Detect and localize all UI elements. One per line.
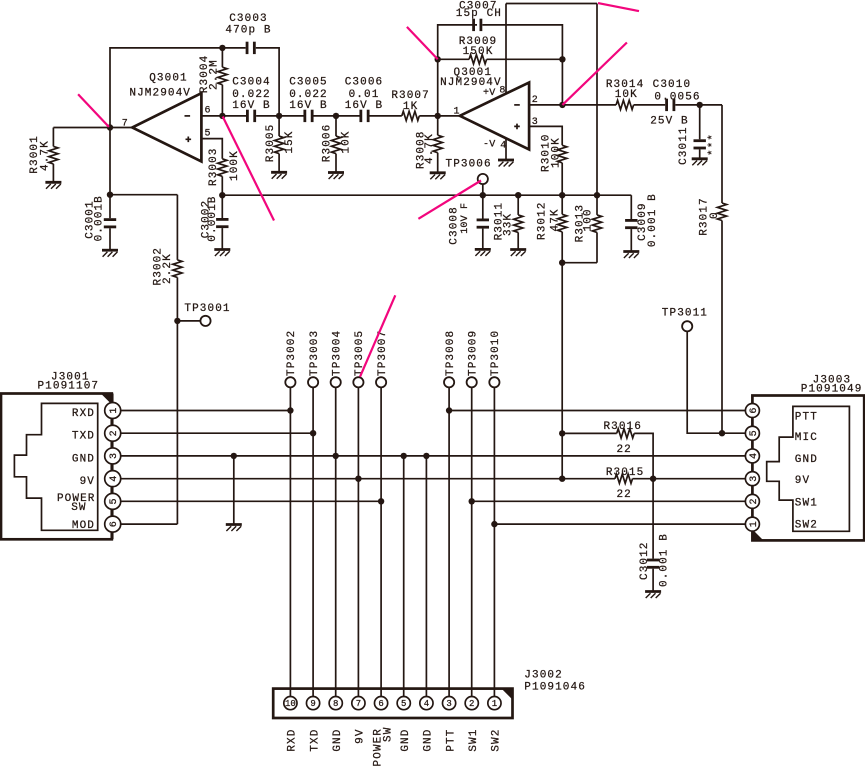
- resistor R3008: [433, 135, 442, 153]
- svg-text:R3003: R3003: [208, 147, 220, 186]
- wire op-amp1 pin5 to R3003: [201, 139, 222, 159]
- ground C3009: [623, 252, 639, 259]
- svg-text:7: 7: [122, 118, 128, 129]
- connector J3002 pin 1 circle: [488, 697, 501, 710]
- resistor R3009: [469, 55, 487, 64]
- wire rail-B bias rail: [222, 194, 631, 196]
- capacitor C3008: [477, 219, 489, 229]
- resistor R3006: [331, 136, 340, 154]
- svg-text:GND: GND: [423, 729, 435, 752]
- node SW2 TP3010 junction: [491, 521, 497, 527]
- svg-text:0.001B: 0.001B: [93, 195, 105, 241]
- connector J3003 jack outline: [767, 406, 850, 531]
- ground R3005: [271, 172, 287, 179]
- resistor R3011: [514, 215, 523, 233]
- resistor R3004: [218, 67, 227, 85]
- svg-text:+V: +V: [483, 88, 495, 99]
- node R3011 rail junction: [515, 192, 521, 198]
- op-amp2 plus input symbol: [514, 124, 520, 130]
- svg-text:6: 6: [205, 106, 211, 117]
- node PTT TP3008 junction: [446, 407, 452, 413]
- svg-text:TP3011: TP3011: [662, 308, 708, 320]
- connector J3002 pin 7 circle: [352, 697, 365, 710]
- wire C3011 top lead: [699, 105, 701, 139]
- test point TP3003: [308, 377, 318, 387]
- test point TP3005: [353, 377, 363, 387]
- connector J3002 pin 8 circle: [329, 697, 342, 710]
- wire op-amp2 -V pin4 lead: [505, 138, 507, 160]
- ground op-amp2 -V: [498, 160, 514, 167]
- connector J3003 pin 3 circle: [745, 472, 759, 486]
- svg-text:5: 5: [401, 699, 406, 709]
- svg-text:9: 9: [310, 699, 315, 709]
- wire R3009 left lead: [438, 58, 469, 60]
- wire C3003 right lead down: [256, 48, 279, 116]
- test point TP3006: [478, 174, 488, 184]
- wire rail-A to R3002: [110, 194, 177, 196]
- wire POWER SW net: [121, 500, 381, 502]
- capacitor C3006: [359, 110, 369, 122]
- svg-text:C3010: C3010: [653, 79, 692, 91]
- wire C3001 bottom lead: [109, 228, 111, 250]
- svg-text:TP3007: TP3007: [377, 330, 389, 376]
- wire R3005 bottom lead: [278, 154, 280, 173]
- svg-text:R3016: R3016: [603, 421, 642, 433]
- wire TP3007 column to J3002 pin6: [380, 387, 382, 696]
- connector J3001 pin 1 circle: [105, 403, 121, 419]
- wire C3011 bottom lead: [699, 149, 701, 158]
- wire TP3006 stem: [482, 184, 484, 195]
- op-amp Q3001 unit A triangle: [132, 93, 201, 161]
- connector J3002 box: [273, 689, 512, 718]
- svg-text:2: 2: [469, 699, 474, 709]
- connector J3002 pin 5 circle: [397, 697, 410, 710]
- svg-text:0.001 B: 0.001 B: [658, 533, 670, 587]
- connector J3003 pin 5 circle: [745, 426, 759, 440]
- svg-text:16V B: 16V B: [289, 100, 328, 112]
- connector J3002 pin 3 circle: [442, 697, 455, 710]
- svg-text:TP3001: TP3001: [184, 303, 230, 315]
- svg-text:TP3010: TP3010: [490, 330, 502, 376]
- resistor R3012: [558, 214, 567, 232]
- wire R3002 top lead: [176, 195, 178, 260]
- svg-text:C3004: C3004: [232, 77, 271, 89]
- svg-text:2: 2: [109, 430, 120, 436]
- connector J3002 pin 4 circle: [420, 697, 433, 710]
- node 9V bias junction: [559, 476, 565, 482]
- svg-text:C3008: C3008: [449, 206, 461, 245]
- wire pin2 to R3014: [562, 104, 616, 106]
- wire R3006 top lead: [335, 116, 337, 136]
- capacitor C3012: [647, 559, 659, 569]
- wire R3002 to MOD line: [176, 277, 178, 524]
- svg-text:10: 10: [285, 699, 296, 709]
- wire R3001 top lead: [52, 128, 54, 147]
- svg-text:TXD: TXD: [309, 729, 321, 752]
- resistor R3001: [49, 146, 58, 164]
- svg-text:3: 3: [446, 699, 451, 709]
- node 9V TP3005 junction: [355, 476, 361, 482]
- wire op-amp2 +V pin8 lead: [505, 4, 507, 94]
- wire C3012 bottom lead: [652, 569, 654, 592]
- svg-text:33K: 33K: [503, 213, 515, 236]
- node R3012 R3013 bottom junction: [559, 260, 565, 266]
- node R3009 left junction: [435, 56, 441, 62]
- svg-text:NJM2904V: NJM2904V: [129, 87, 191, 99]
- svg-text:***: ***: [707, 133, 719, 156]
- svg-text:2: 2: [749, 498, 760, 504]
- connector J3003 pin 1 circle: [745, 517, 759, 531]
- svg-text:470p B: 470p B: [225, 24, 271, 36]
- connector J3002 pin 9 circle: [306, 697, 319, 710]
- resistor R3007: [402, 111, 420, 120]
- wire top rail right vertical to rail-B: [596, 4, 598, 196]
- wire C3009 bottom lead: [630, 229, 632, 251]
- svg-text:GND: GND: [332, 729, 344, 752]
- wire TP3005 column to J3002 pin7: [357, 387, 359, 696]
- svg-text:P1091049: P1091049: [801, 383, 863, 395]
- wire TP3004 column to J3002 pin8: [335, 387, 337, 696]
- connector J3003 pin 2 circle: [745, 494, 759, 508]
- connector J3001 pin 2 circle: [105, 425, 121, 441]
- node R3009 right junction: [559, 56, 565, 62]
- wire TP3001 stem: [177, 320, 200, 322]
- wire R3017 to MIC line: [721, 221, 723, 434]
- op-amp2 minus input symbol: [514, 104, 520, 106]
- node MIC R3017 junction: [719, 430, 725, 436]
- resistor R3010: [558, 145, 567, 163]
- connector J3002 corner mark: [502, 689, 513, 700]
- capacitor C3010: [665, 99, 675, 111]
- node GND J3002-pin5 junction: [401, 453, 407, 459]
- svg-text:4: 4: [109, 476, 120, 482]
- svg-text:NJM2904V: NJM2904V: [440, 77, 502, 89]
- node SW1 TP3009 junction: [469, 498, 475, 504]
- wire R3001 bottom lead: [52, 164, 54, 182]
- svg-text:PTT: PTT: [445, 729, 457, 752]
- svg-text:GND: GND: [72, 453, 95, 465]
- wire R3013 top lead: [596, 195, 598, 215]
- node op-amp2 output junction: [435, 113, 441, 119]
- connector J3003 pin 6 circle: [745, 404, 759, 418]
- svg-text:C3011: C3011: [678, 126, 690, 165]
- resistor R3013: [592, 215, 601, 233]
- svg-text:5: 5: [109, 498, 120, 504]
- wire GND net: [121, 455, 746, 457]
- svg-text:6: 6: [109, 521, 120, 527]
- svg-text:C3012: C3012: [639, 541, 651, 580]
- svg-text:150K: 150K: [463, 46, 494, 58]
- connector J3001 pin 3 circle: [105, 448, 121, 464]
- svg-text:100: 100: [583, 208, 595, 231]
- svg-text:GND: GND: [795, 454, 818, 466]
- svg-text:3: 3: [109, 453, 120, 459]
- svg-text:4.7K: 4.7K: [424, 133, 436, 164]
- svg-text:R3015: R3015: [606, 467, 645, 479]
- svg-text:6: 6: [749, 407, 760, 413]
- connector J3001 pin 6 circle: [105, 516, 121, 532]
- wire R3006 bottom lead: [335, 154, 337, 173]
- wire R3008 top lead: [437, 116, 439, 135]
- node TXD TP3003 junction: [310, 430, 316, 436]
- connector J3001 box: [1, 394, 112, 540]
- wire PTT net: [449, 410, 745, 412]
- svg-text:9V: 9V: [355, 728, 367, 743]
- wire R3016 right lead down: [634, 433, 653, 478]
- annotation line F TP3006: [418, 181, 481, 219]
- test point TP3002: [285, 377, 295, 387]
- node R3004 top junction: [219, 45, 225, 51]
- node rail-B left junction: [219, 192, 225, 198]
- svg-text:C3005: C3005: [289, 77, 328, 89]
- wire SW1 net: [472, 500, 746, 502]
- svg-text:RXD: RXD: [287, 729, 299, 752]
- node TP3001 junction: [174, 318, 180, 324]
- connector J3001 pin 4 circle: [105, 471, 121, 487]
- svg-text:16V B: 16V B: [345, 100, 384, 112]
- svg-text:PTT: PTT: [795, 411, 818, 423]
- wire R3004 bottom lead: [221, 85, 223, 116]
- wire C3003 left lead: [222, 47, 245, 49]
- resistor R3005: [275, 136, 284, 154]
- svg-text:47K: 47K: [549, 208, 561, 231]
- node RXD TP3002 junction: [287, 407, 293, 413]
- svg-text:1: 1: [109, 407, 120, 413]
- svg-text:9V: 9V: [80, 476, 95, 488]
- capacitor C3007: [472, 19, 482, 31]
- svg-text:TP3009: TP3009: [468, 330, 480, 376]
- connector J3003 pin 4 circle: [745, 449, 759, 463]
- test point TP3008: [444, 377, 454, 387]
- node GND J3002-pin4 junction: [423, 453, 429, 459]
- wire GND column to J3002 pin4: [425, 456, 427, 697]
- node POWER SW TP3007 junction: [378, 498, 384, 504]
- wire C3001 top lead: [109, 195, 111, 219]
- wire R3013 bottom lead: [596, 232, 598, 262]
- svg-text:SW: SW: [383, 727, 395, 742]
- test point TP3009: [467, 377, 477, 387]
- annotation line G TP3005: [360, 295, 395, 377]
- svg-text:0.001B: 0.001B: [207, 195, 219, 241]
- svg-text:10V F: 10V F: [460, 203, 471, 234]
- svg-text:C3003: C3003: [229, 13, 268, 25]
- wire TP3002 column to J3002 pin10: [289, 387, 291, 696]
- resistor R3017: [717, 203, 726, 221]
- svg-text:-V: -V: [483, 140, 495, 151]
- wire SW2 net: [494, 523, 745, 525]
- svg-text:J3002: J3002: [524, 670, 563, 682]
- wire TP3011 stem to MIC: [687, 331, 745, 433]
- wire op-amp2 pin3 to R3010: [529, 126, 562, 145]
- connector J3003 box: [752, 396, 864, 541]
- wire +V top rail: [506, 3, 597, 5]
- capacitor C3011: [694, 139, 706, 149]
- wire op-amp1 pin6 line: [201, 115, 246, 117]
- svg-text:Q3001: Q3001: [149, 73, 188, 85]
- capacitor C3003: [246, 42, 256, 54]
- wire R3005 top lead: [278, 116, 280, 136]
- svg-text:0: 0: [709, 211, 721, 219]
- node op-amp1 output junction: [107, 124, 113, 130]
- annotation line A op-amp1 output: [78, 94, 109, 127]
- svg-text:9V: 9V: [795, 475, 810, 487]
- wire op-amp1 output to R3001: [53, 127, 132, 129]
- connector J3001 corner mark: [101, 394, 112, 405]
- wire GND column to J3002 pin5: [403, 456, 405, 697]
- wire R3010 bottom lead: [561, 163, 563, 195]
- wire R3014 to C3010: [634, 104, 666, 106]
- connector J3002 pin 6 circle: [374, 697, 387, 710]
- wire R3007 to op-amp2 output node: [419, 115, 437, 117]
- svg-text:1: 1: [492, 699, 497, 709]
- wire op-amp1 feedback loop top rail: [110, 48, 222, 195]
- node R3016 left junction: [559, 430, 565, 436]
- test point TP3004: [331, 377, 341, 387]
- svg-text:8: 8: [333, 699, 338, 709]
- wire C3006 to R3007: [370, 115, 402, 117]
- svg-text:MOD: MOD: [72, 520, 95, 532]
- resistor R3014: [616, 100, 634, 109]
- ground R3011: [510, 250, 526, 257]
- wire op-amp2 feedback left vertical: [438, 25, 477, 116]
- svg-text:2.2K: 2.2K: [162, 253, 174, 284]
- svg-text:2.2M: 2.2M: [209, 59, 221, 90]
- svg-text:SW1: SW1: [795, 497, 818, 509]
- node R3013 rail junction: [594, 192, 600, 198]
- svg-text:RXD: RXD: [72, 408, 95, 420]
- svg-text:SW: SW: [71, 502, 86, 514]
- wire J3001 pin chain: [112, 394, 114, 540]
- annotation line B pin6 node: [223, 117, 274, 221]
- wire R3011 bottom lead: [517, 232, 519, 249]
- ground C3011: [692, 159, 708, 166]
- node op-amp2 pin2 junction: [559, 102, 565, 108]
- svg-text:16V B: 16V B: [232, 100, 271, 112]
- svg-text:15p CH: 15p CH: [456, 8, 502, 20]
- wire 9V net left: [121, 478, 615, 480]
- wire R3017 top lead: [721, 105, 723, 203]
- ground GND net: [226, 525, 242, 532]
- svg-text:10K: 10K: [615, 89, 638, 101]
- node GND stem junction: [231, 453, 237, 459]
- wire J3003 pin chain: [751, 396, 753, 541]
- svg-text:P1091046: P1091046: [524, 682, 586, 694]
- svg-text:15K: 15K: [284, 130, 296, 153]
- wire C3002 bottom lead: [221, 228, 223, 249]
- ground R3006: [328, 173, 344, 180]
- svg-text:22: 22: [616, 444, 631, 456]
- svg-text:0.0056: 0.0056: [654, 92, 700, 104]
- wire TP3003 column to J3002 pin9: [312, 387, 314, 696]
- annotation line E top rail corner: [598, 3, 639, 11]
- svg-text:1K: 1K: [403, 101, 418, 113]
- wire TP3009 column to J3002 pin2: [471, 387, 473, 696]
- svg-text:P1091107: P1091107: [37, 381, 99, 393]
- svg-text:MIC: MIC: [795, 432, 818, 444]
- wire R3004 top lead: [221, 48, 223, 67]
- wire 9V net right: [633, 478, 746, 480]
- capacitor C3001: [104, 218, 116, 228]
- svg-text:0.001 B: 0.001 B: [647, 193, 659, 247]
- node C3011 junction: [697, 102, 703, 108]
- wire R3009 right lead: [487, 58, 563, 60]
- node 9V R3015 right junction: [650, 476, 656, 482]
- svg-text:4: 4: [749, 453, 760, 459]
- capacitor C3002: [216, 218, 228, 228]
- connector J3002 pin 2 circle: [465, 697, 478, 710]
- annotation line C R3009 left node: [407, 27, 438, 59]
- node pin6 junction: [219, 113, 225, 119]
- svg-text:TP3006: TP3006: [446, 159, 492, 171]
- wire GND net ground stem: [233, 456, 235, 525]
- svg-text:C3006: C3006: [345, 77, 384, 89]
- connector J3001 jack outline: [14, 403, 97, 530]
- connector J3001 pin 5 circle: [105, 493, 121, 509]
- wire C3005 to C3006: [314, 115, 360, 117]
- svg-text:TXD: TXD: [72, 431, 95, 443]
- svg-text:R3005: R3005: [265, 124, 277, 163]
- svg-text:3: 3: [749, 476, 760, 482]
- wire bias vertical down to 9V line: [561, 263, 563, 479]
- wire C3007 right lead down: [482, 25, 562, 105]
- wire R3008 bottom lead: [437, 153, 439, 173]
- node C3008 rail junction: [480, 192, 486, 198]
- svg-text:6: 6: [378, 699, 383, 709]
- ground C3002: [214, 250, 230, 257]
- node R3005 junction: [276, 113, 282, 119]
- connector J3002 pin 10 circle: [284, 697, 297, 710]
- wire R3011 top lead: [517, 195, 519, 215]
- node GND TP3004 junction: [333, 453, 339, 459]
- svg-text:4: 4: [424, 699, 429, 709]
- svg-text:7: 7: [356, 699, 361, 709]
- svg-text:SW2: SW2: [795, 519, 818, 531]
- svg-text:SW2: SW2: [491, 729, 503, 752]
- wire R3012 bottom lead: [561, 232, 563, 263]
- svg-text:4.7K: 4.7K: [39, 140, 51, 171]
- svg-text:5: 5: [749, 430, 760, 436]
- node rail-A left junction: [107, 192, 113, 198]
- test point TP3010: [489, 377, 499, 387]
- svg-text:100K: 100K: [550, 137, 562, 168]
- op-amp Q3001 unit B triangle: [460, 83, 529, 150]
- wire op-amp2 pin2 line: [529, 104, 562, 106]
- annotation line D pin2 node: [562, 43, 627, 105]
- node R3012 rail junction: [559, 192, 565, 198]
- wire TP3010 column to J3002 pin1: [493, 387, 495, 696]
- wire op-amp1 output wire pin1: [438, 115, 460, 117]
- wire C3012 top lead: [652, 479, 654, 559]
- svg-text:10K: 10K: [340, 130, 352, 153]
- op-amp1 plus input symbol: [186, 137, 192, 143]
- wire TP3008 column to J3002 pin3: [448, 387, 450, 696]
- test point TP3011: [682, 321, 692, 331]
- svg-text:TP3003: TP3003: [309, 330, 321, 376]
- ground R3008: [430, 173, 446, 180]
- svg-text:1: 1: [749, 521, 760, 527]
- ground C3001: [102, 250, 118, 257]
- svg-text:TP3008: TP3008: [445, 330, 457, 376]
- svg-text:25V B: 25V B: [650, 116, 689, 128]
- wire MOD net: [121, 523, 178, 525]
- ground R3001: [45, 182, 61, 189]
- test point TP3007: [376, 377, 386, 387]
- svg-text:R3006: R3006: [321, 124, 333, 163]
- wire R3003 bottom lead: [221, 176, 223, 195]
- wire C3009 top lead: [630, 195, 632, 219]
- wire R3013 bottom join: [562, 262, 597, 264]
- svg-text:100K: 100K: [229, 150, 241, 181]
